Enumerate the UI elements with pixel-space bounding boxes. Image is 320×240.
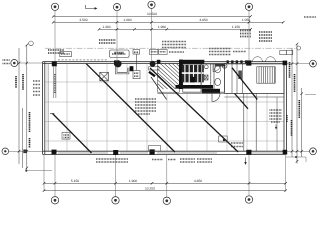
svg-text:1.860: 1.860	[123, 18, 131, 22]
svg-text:5.150: 5.150	[71, 179, 79, 183]
svg-text:1.960: 1.960	[158, 25, 166, 29]
svg-text:1.050: 1.050	[242, 18, 250, 22]
svg-text:3.500: 3.500	[79, 18, 87, 22]
svg-text:1.150: 1.150	[232, 25, 240, 29]
svg-text:4.650: 4.650	[194, 179, 202, 183]
svg-text:1.360: 1.360	[102, 25, 110, 29]
svg-text:10.500: 10.500	[147, 12, 157, 16]
svg-text:4.650: 4.650	[199, 18, 207, 22]
svg-text:1.900: 1.900	[129, 179, 137, 183]
svg-text:10.200: 10.200	[145, 187, 155, 191]
